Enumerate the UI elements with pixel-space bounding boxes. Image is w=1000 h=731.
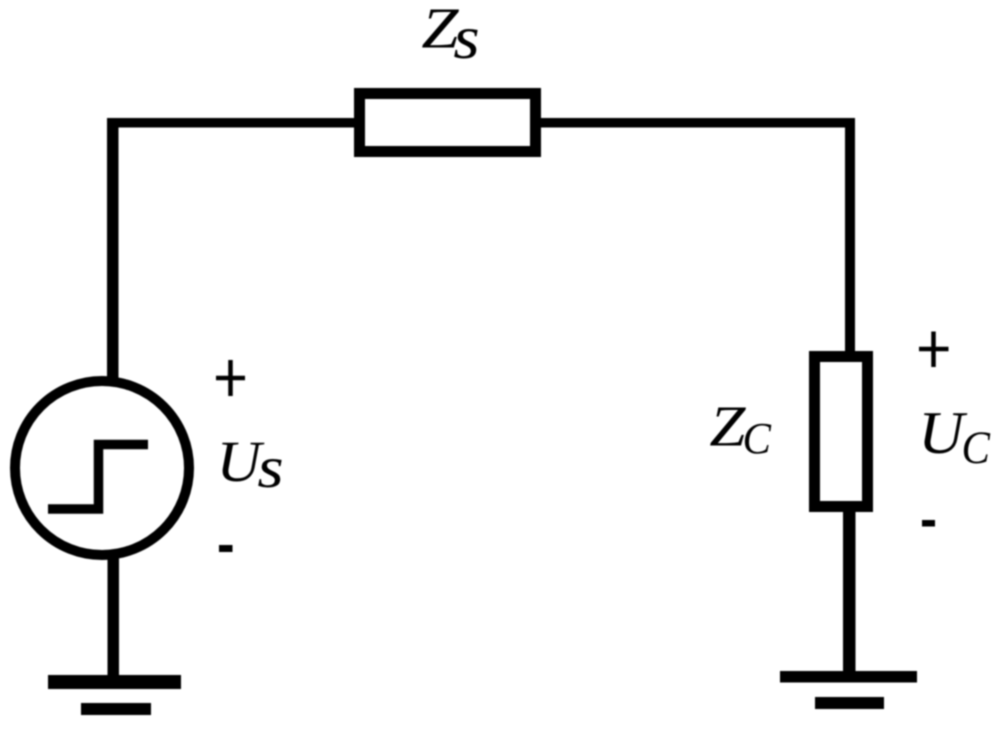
- wire ZC to ground: [843, 512, 856, 677]
- label plus (source): [216, 360, 245, 396]
- label Us: [216, 429, 264, 494]
- resistor Zs: [360, 94, 536, 152]
- svg-text:U: U: [918, 400, 967, 466]
- svg-text:s: s: [257, 434, 283, 500]
- wire right vertical: [845, 118, 855, 355]
- ground (right): [780, 671, 917, 683]
- label minus (source): [219, 545, 233, 552]
- svg-text:s: s: [453, 4, 479, 73]
- label minus (load): [922, 520, 935, 527]
- label UC: [918, 400, 967, 466]
- step waveform symbol: [48, 445, 148, 510]
- wire source to ground: [108, 555, 120, 680]
- svg-text:Z: Z: [709, 395, 746, 459]
- svg-text:C: C: [742, 414, 771, 463]
- label ZC: [709, 395, 746, 459]
- label Zs: [421, 0, 459, 61]
- label plus (load): [919, 332, 949, 368]
- voltage source Us: [15, 381, 189, 555]
- impedance ZC: [815, 357, 868, 507]
- svg-text:C: C: [961, 421, 991, 473]
- ground (left): [48, 675, 181, 689]
- wire left vertical: [107, 118, 119, 378]
- wire top horizontal: [107, 118, 855, 128]
